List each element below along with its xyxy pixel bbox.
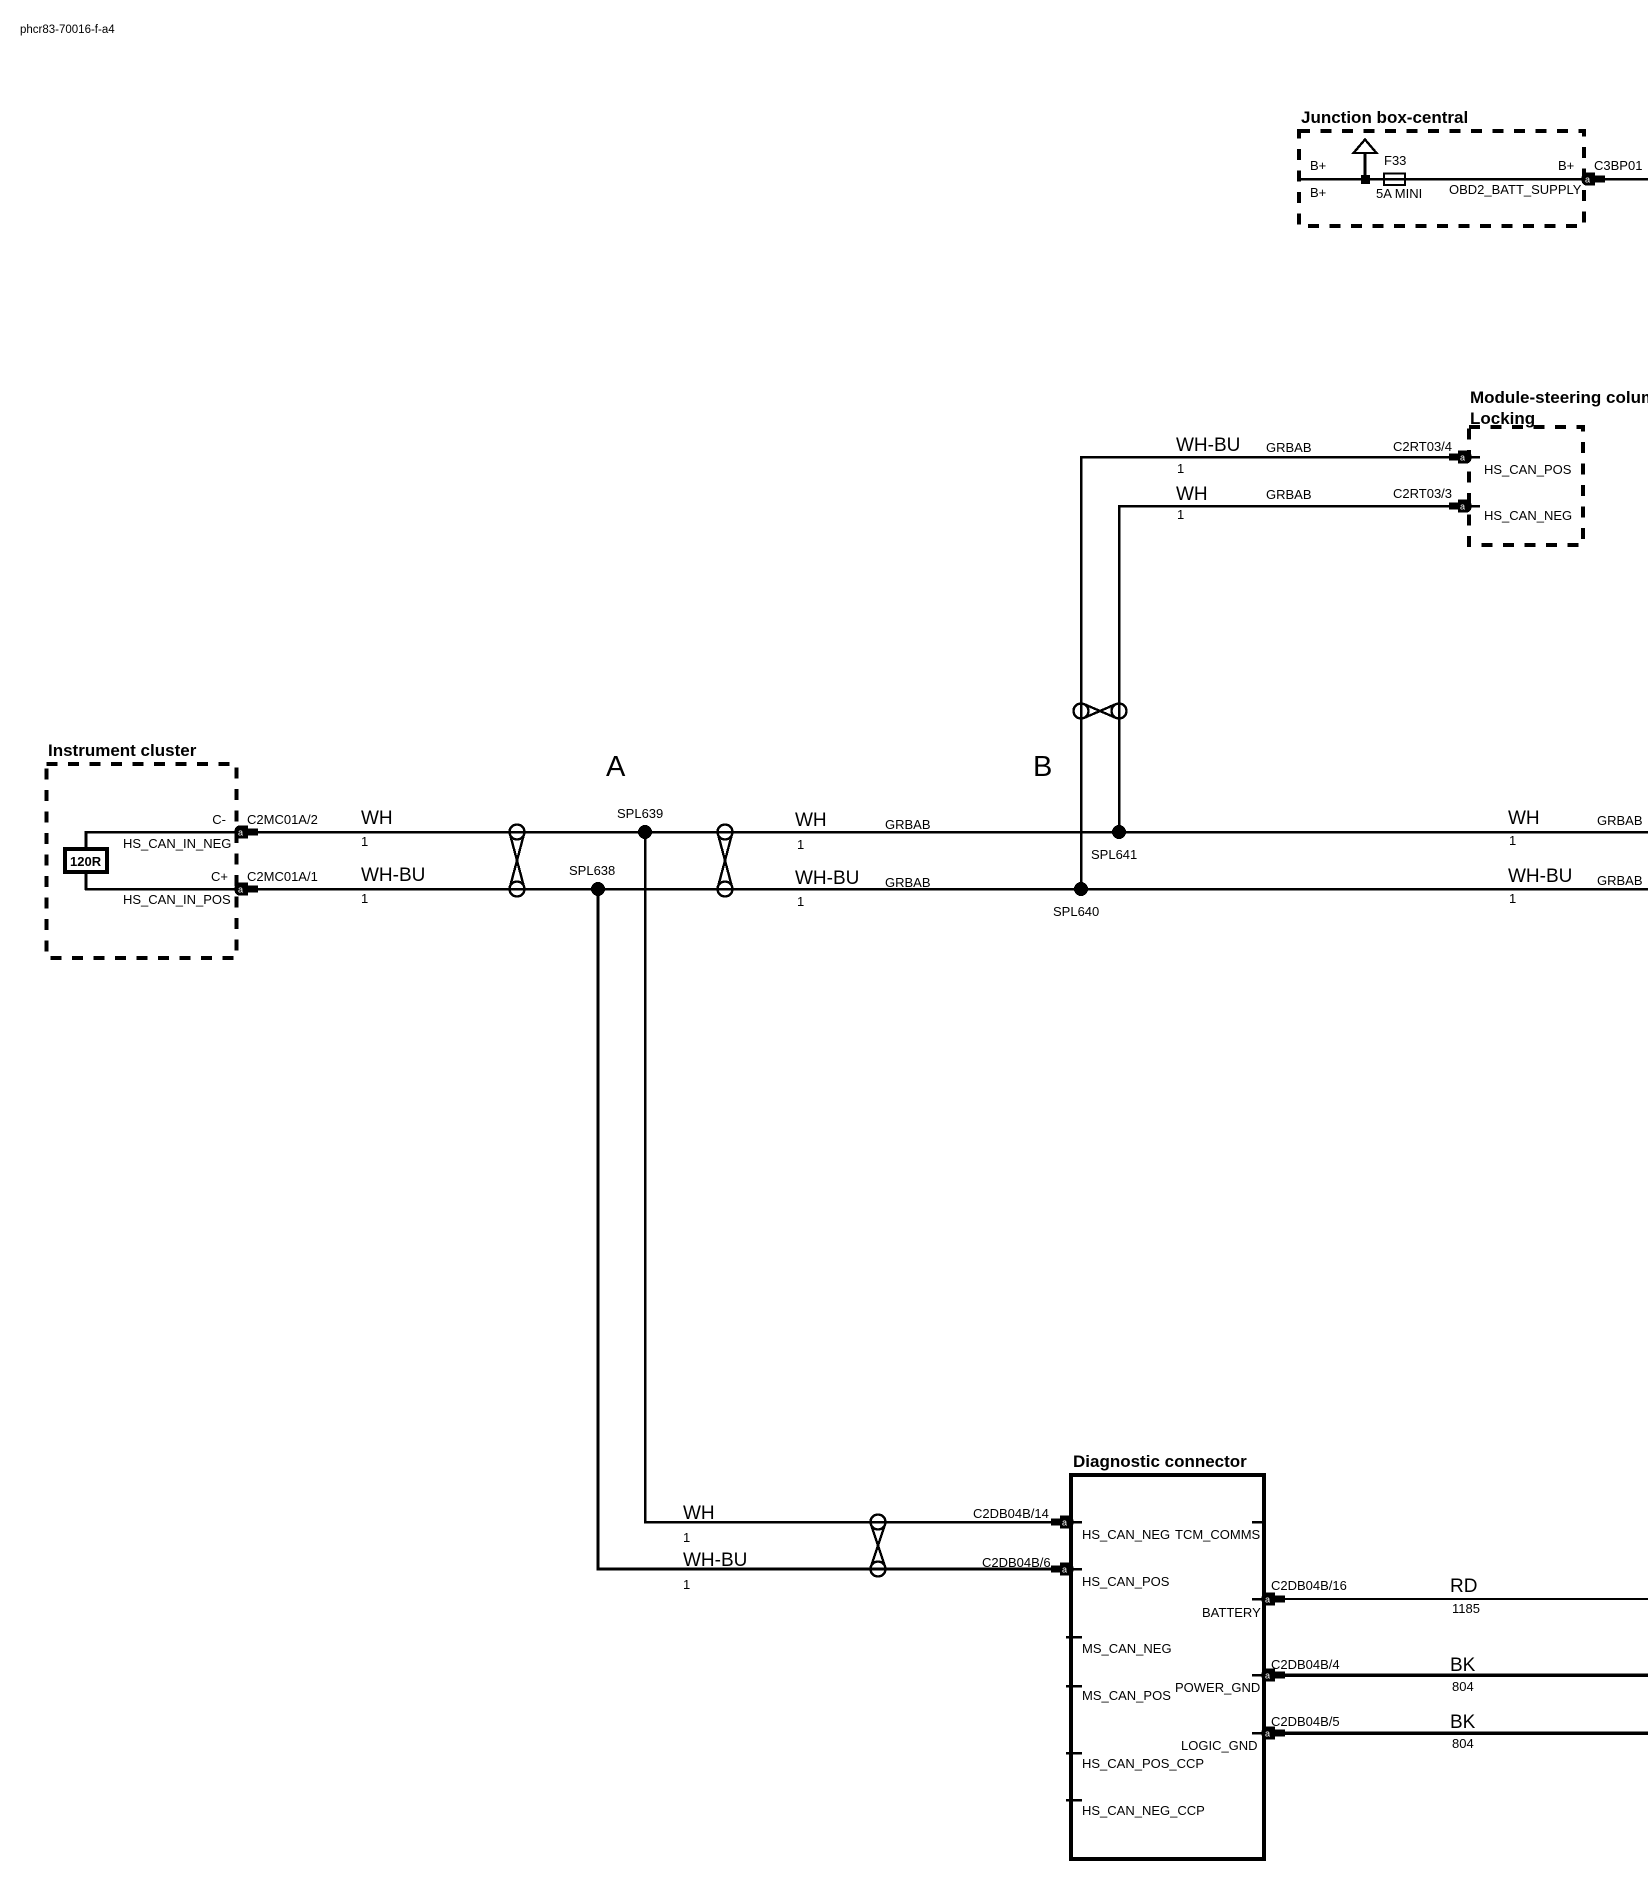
wire WH-BU to module <box>1081 457 1480 889</box>
twisted pair symbol 3 <box>871 1515 886 1577</box>
diagnostic connector box <box>1071 1452 1264 1859</box>
svg-text:1: 1 <box>1509 891 1516 906</box>
svg-text:C2MC01A/1: C2MC01A/1 <box>247 869 318 884</box>
svg-text:a: a <box>1460 502 1465 512</box>
svg-text:C+: C+ <box>211 869 228 884</box>
wire WH to diagnostic <box>645 832 1068 1522</box>
svg-text:1: 1 <box>1177 507 1184 522</box>
wire label WH-BU left <box>361 865 425 906</box>
svg-text:a: a <box>1265 1671 1270 1681</box>
node A label <box>606 751 626 783</box>
svg-text:a: a <box>1585 175 1590 185</box>
pin label HS_CAN_NEG <box>1484 508 1572 523</box>
svg-text:LOGIC_GND: LOGIC_GND <box>1181 1738 1258 1753</box>
power feed B+ symbol <box>1354 140 1377 185</box>
svg-text:SPL639: SPL639 <box>617 806 663 821</box>
svg-text:BK: BK <box>1450 1712 1476 1733</box>
svg-text:GRBAB: GRBAB <box>885 817 931 832</box>
svg-text:GRBAB: GRBAB <box>1266 487 1312 502</box>
svg-text:1: 1 <box>683 1530 690 1545</box>
svg-text:B: B <box>1033 751 1052 783</box>
svg-text:WH-BU: WH-BU <box>683 1550 747 1571</box>
svg-text:a: a <box>1062 1565 1067 1575</box>
pin stub HS_CAN_POS_CCP <box>1066 1753 1204 1771</box>
svg-text:BK: BK <box>1450 1655 1476 1676</box>
wire BK 804 logic <box>1283 1712 1648 1751</box>
svg-text:1: 1 <box>1509 833 1516 848</box>
svg-text:WH: WH <box>361 808 393 829</box>
pin C+ labels <box>123 869 318 907</box>
resistor 120R <box>65 849 107 872</box>
svg-text:WH-BU: WH-BU <box>1508 866 1572 887</box>
svg-text:Junction box-central: Junction box-central <box>1301 108 1468 127</box>
svg-text:C2DB04B/5: C2DB04B/5 <box>1271 1714 1340 1729</box>
wire OBD2_BATT_SUPPLY <box>1299 178 1648 181</box>
svg-text:BATTERY: BATTERY <box>1202 1605 1261 1620</box>
wire WH bus (top) <box>85 831 1648 834</box>
wire label WH-BU module <box>1176 435 1312 476</box>
svg-text:a: a <box>1062 1518 1067 1528</box>
svg-text:HS_CAN_POS_CCP: HS_CAN_POS_CCP <box>1082 1756 1204 1771</box>
splice SPL640 <box>1053 882 1099 919</box>
svg-text:C2RT03/3: C2RT03/3 <box>1393 486 1452 501</box>
connector C2DB04B/6 <box>982 1555 1082 1576</box>
svg-text:a: a <box>1265 1729 1270 1739</box>
svg-text:C2DB04B/4: C2DB04B/4 <box>1271 1657 1340 1672</box>
svg-text:WH: WH <box>1176 484 1208 505</box>
junction box-central <box>1299 108 1584 226</box>
svg-text:SPL638: SPL638 <box>569 863 615 878</box>
svg-text:A: A <box>606 751 626 783</box>
connector C2MC01A/2 <box>235 826 259 839</box>
net labels B+ <box>1310 158 1574 200</box>
svg-text:HS_CAN_POS: HS_CAN_POS <box>1484 462 1572 477</box>
connector C2DB04B/14 <box>973 1506 1082 1529</box>
svg-text:1: 1 <box>361 891 368 906</box>
svg-text:B+: B+ <box>1310 185 1326 200</box>
svg-text:WH-BU: WH-BU <box>1176 435 1240 456</box>
connector C2RT03/4 <box>1393 439 1472 464</box>
svg-text:1: 1 <box>1177 461 1184 476</box>
svg-text:phcr83-70016-f-a4: phcr83-70016-f-a4 <box>20 24 115 36</box>
instrument cluster box <box>47 741 237 958</box>
node B label <box>1033 751 1052 783</box>
svg-text:120R: 120R <box>70 854 102 869</box>
wire label WH-BU mid <box>795 868 931 909</box>
wire label WH module <box>1176 484 1312 522</box>
svg-text:WH: WH <box>795 810 827 831</box>
svg-text:MS_CAN_NEG: MS_CAN_NEG <box>1082 1641 1172 1656</box>
svg-text:1: 1 <box>361 834 368 849</box>
pin BATTERY with connector C2DB04B/16 <box>1202 1578 1347 1620</box>
splice SPL639 <box>617 806 663 839</box>
svg-text:WH-BU: WH-BU <box>795 868 859 889</box>
svg-text:Diagnostic connector: Diagnostic connector <box>1073 1452 1247 1471</box>
svg-text:1: 1 <box>797 837 804 852</box>
svg-text:WH-BU: WH-BU <box>361 865 425 886</box>
pin label TCM_COMMS <box>1175 1522 1264 1542</box>
pin label HS_CAN_POS diag <box>1082 1574 1170 1589</box>
svg-text:804: 804 <box>1452 1679 1474 1694</box>
wire WH to module <box>1119 506 1480 832</box>
svg-text:OBD2_BATT_SUPPLY: OBD2_BATT_SUPPLY <box>1449 182 1582 197</box>
svg-text:WH: WH <box>683 1503 715 1524</box>
svg-text:HS_CAN_NEG: HS_CAN_NEG <box>1082 1527 1170 1542</box>
svg-text:C-: C- <box>212 812 226 827</box>
wire label WH left <box>361 808 393 849</box>
svg-text:a: a <box>238 885 243 895</box>
svg-text:POWER_GND: POWER_GND <box>1175 1680 1260 1695</box>
connector C3BP01 <box>1582 158 1643 186</box>
svg-text:HS_CAN_IN_POS: HS_CAN_IN_POS <box>123 892 231 907</box>
svg-text:a: a <box>1265 1595 1270 1605</box>
splice SPL638 <box>569 863 615 896</box>
svg-text:GRBAB: GRBAB <box>1597 813 1643 828</box>
svg-text:1: 1 <box>797 894 804 909</box>
svg-text:a: a <box>1460 453 1465 463</box>
svg-text:1185: 1185 <box>1452 1601 1480 1616</box>
svg-text:SPL640: SPL640 <box>1053 904 1099 919</box>
module-steering column locking box <box>1469 388 1648 545</box>
svg-text:804: 804 <box>1452 1736 1474 1751</box>
pin label HS_CAN_NEG diag <box>1082 1527 1170 1542</box>
svg-text:1: 1 <box>683 1577 690 1592</box>
svg-text:TCM_COMMS: TCM_COMMS <box>1175 1527 1261 1542</box>
svg-text:C3BP01: C3BP01 <box>1594 158 1642 173</box>
wire termination resistor link <box>85 831 88 890</box>
pin label HS_CAN_POS <box>1484 462 1572 477</box>
twisted pair symbol 2 <box>718 825 733 897</box>
svg-text:WH: WH <box>1508 808 1540 829</box>
svg-text:C2DB04B/6: C2DB04B/6 <box>982 1555 1051 1570</box>
svg-text:GRBAB: GRBAB <box>1597 873 1643 888</box>
svg-text:GRBAB: GRBAB <box>885 875 931 890</box>
svg-text:SPL641: SPL641 <box>1091 847 1137 862</box>
svg-text:5A MINI: 5A MINI <box>1376 186 1422 201</box>
wire label WH mid <box>795 810 931 852</box>
twisted pair symbol 1 <box>510 825 525 897</box>
svg-text:HS_CAN_POS: HS_CAN_POS <box>1082 1574 1170 1589</box>
connector C2MC01A/1 <box>235 883 259 896</box>
splice SPL641 <box>1091 825 1137 862</box>
wire label WH-BU right <box>1508 866 1643 906</box>
fuse F33 5A MINI <box>1376 153 1422 201</box>
svg-text:a: a <box>238 828 243 838</box>
wire RD 1185 <box>1283 1576 1648 1616</box>
svg-text:B+: B+ <box>1558 158 1574 173</box>
svg-text:C2DB04B/14: C2DB04B/14 <box>973 1506 1049 1521</box>
twisted pair symbol 4 (vertical pair) <box>1074 704 1127 719</box>
wire label WH right <box>1508 808 1643 848</box>
pin stub HS_CAN_NEG_CCP <box>1066 1800 1205 1818</box>
wire WH-BU to diagnostic <box>598 889 1068 1569</box>
pin C- labels <box>123 812 318 851</box>
svg-text:Module-steering column: Module-steering column <box>1470 388 1648 407</box>
svg-text:F33: F33 <box>1384 153 1406 168</box>
wire BK 804 power <box>1283 1655 1648 1694</box>
svg-text:C2MC01A/2: C2MC01A/2 <box>247 812 318 827</box>
pin POWER_GND with connector C2DB04B/4 <box>1175 1657 1340 1695</box>
svg-text:B+: B+ <box>1310 158 1326 173</box>
pin LOGIC_GND with connector C2DB04B/5 <box>1181 1714 1340 1753</box>
svg-text:RD: RD <box>1450 1576 1477 1597</box>
svg-text:C2DB04B/16: C2DB04B/16 <box>1271 1578 1347 1593</box>
svg-text:MS_CAN_POS: MS_CAN_POS <box>1082 1688 1171 1703</box>
svg-text:HS_CAN_IN_NEG: HS_CAN_IN_NEG <box>123 836 231 851</box>
svg-text:HS_CAN_NEG_CCP: HS_CAN_NEG_CCP <box>1082 1803 1205 1818</box>
pin stub MS_CAN_POS <box>1066 1686 1171 1703</box>
svg-text:C2RT03/4: C2RT03/4 <box>1393 439 1452 454</box>
svg-text:Instrument cluster: Instrument cluster <box>48 741 197 760</box>
net label OBD2_BATT_SUPPLY <box>1449 182 1582 197</box>
connector C2RT03/3 <box>1393 486 1472 513</box>
wire WH-BU bus (bottom) <box>85 888 1648 891</box>
svg-text:HS_CAN_NEG: HS_CAN_NEG <box>1484 508 1572 523</box>
pin stub MS_CAN_NEG <box>1066 1637 1172 1656</box>
wire label WH-BU diag <box>683 1550 747 1592</box>
wire label WH diag <box>683 1503 715 1545</box>
svg-text:GRBAB: GRBAB <box>1266 440 1312 455</box>
